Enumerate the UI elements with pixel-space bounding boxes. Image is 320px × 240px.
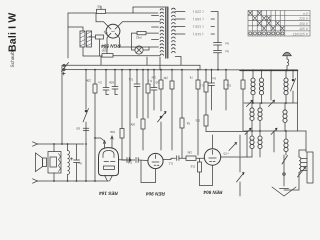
wire mid rail right [244,130,306,132]
label switch plus [62,72,65,75]
wire pickup down [284,172,299,190]
pin V4 cathode wire 1 [107,36,108,54]
pin V2 right [163,158,175,159]
voltage selector table [248,11,310,37]
tap wire 110 [175,33,185,35]
wire power rail link [100,56,102,65]
resistor R5 [94,70,96,84]
svg-text:220 V: 220 V [298,17,309,21]
wire L1 bottom [82,47,84,56]
coil L4 [261,70,263,78]
svg-text:0,5: 0,5 [226,83,231,87]
svg-text:Schaub: Schaub [10,51,16,68]
coil L11 [285,131,287,139]
coil L8 [284,103,286,110]
pin V4 anode wire 2 [118,22,160,27]
svg-text:7k: 7k [189,75,193,79]
switch S2 [85,70,87,109]
wire mains top [68,12,96,14]
mains switch S1 [63,64,65,66]
detector tube V3 REN 904 [204,149,220,165]
pickup coil L12 [299,157,301,172]
grid resistor R13 [199,159,201,163]
junction dots bus [53,69,294,182]
svg-text:0,1: 0,1 [147,79,152,83]
svg-text:0,1: 0,1 [168,161,173,165]
svg-text:RES 164: RES 164 [99,191,118,196]
pin V3 right [221,156,247,158]
svg-text:P42: P42 [136,35,142,39]
antenna A [283,52,292,56]
svg-text:5n: 5n [225,49,229,53]
wire mains left vertical [67,13,69,58]
choke L2 [68,151,70,175]
coil L9 [251,131,253,136]
transformer T1 core [166,8,168,58]
resistor R1 mains dropper [97,9,106,13]
switch contact S6 [245,128,251,134]
wire heater left [146,57,148,65]
svg-text:0,1: 0,1 [127,160,132,164]
capacitor C2 [214,43,222,45]
capacitor C3 [214,50,222,52]
table X marks row1 [249,11,262,15]
title Bali IW [7,12,19,67]
wire T2 bottom [53,173,55,181]
wire drop x95 to bottom rail [94,93,96,181]
wire right bottom rail [244,102,298,104]
pickup tap wires [301,159,308,171]
capacitor C7 [136,70,138,84]
switch contact S5 [269,100,275,106]
wire mains down left [61,65,63,144]
svg-text:( 110 ): ( 110 ) [193,32,204,36]
svg-text:60: 60 [97,4,101,8]
speaker LS cone [36,153,43,172]
pickup trimmer arrow [298,167,306,177]
potentiometer P1 arrow [158,112,167,123]
tap collector wires [211,12,218,41]
wire drop x122 [121,70,123,129]
wire speaker top [38,143,85,145]
pin V1 bottom [105,175,113,181]
resistor R10 [205,70,207,82]
svg-text:+70: +70 [223,151,229,155]
resistor R3 [96,35,104,39]
terminal arrow out2 [33,179,38,183]
table X marks row4 [262,26,284,30]
wire T2 top [53,144,55,152]
svg-text:110/125 V: 110/125 V [293,32,309,36]
svg-text:5n: 5n [212,76,216,80]
table X marks row3 [258,21,280,25]
transformer T1 secondary winding [172,8,176,52]
capacitor C10 [211,70,213,83]
lamp LP1 dial light [135,46,143,54]
pin V3 bottom [200,165,213,185]
wire R1 to transformer [106,12,158,14]
svg-text:4μ: 4μ [78,161,82,165]
wire taps to bus [217,53,219,70]
switch lever ground branch [282,156,288,165]
wire tube3 to coils [246,131,248,157]
ground symbol [272,187,296,196]
coil L6 [251,103,253,108]
resistor R2 [137,31,146,34]
svg-text:5n: 5n [225,41,229,45]
capacitor C6 [114,70,116,87]
wire drop x161 potentiometer [160,70,162,80]
svg-text:n.V: n.V [303,12,309,16]
resistor R17 [171,70,173,81]
wire contact drop x274 [273,132,275,153]
svg-text:0,1: 0,1 [128,77,133,81]
audio tube V2 REN 904 [148,153,163,168]
wire right block vertical [305,131,307,152]
output tube V1 RES 164 [99,148,119,176]
antenna coupling coil L13 [287,59,289,66]
coupling capacitor C12 [122,159,126,161]
transformer T1 primary tap stubs [152,15,159,17]
wire drop x130 [129,70,131,160]
svg-text:REN 904: REN 904 [203,190,222,195]
wire bottom rail power [83,55,102,57]
resistor R15 [242,70,244,80]
wire upper rail [63,65,200,70]
switch contact S7 [271,128,277,134]
pin V3 top [212,135,214,149]
resistor R4 [102,54,113,58]
coil L5 [285,70,287,78]
svg-text:0,1: 0,1 [199,83,204,87]
svg-text:50n: 50n [108,80,114,84]
terminal arrow out1 [33,142,38,146]
tap wire 150 [175,18,185,20]
main bus [63,69,240,71]
pins V1 top [95,138,105,148]
resistor R7 [147,70,149,84]
trimmer V3 top [229,143,237,151]
ground wire [283,155,285,186]
wire L1 top [68,27,83,31]
svg-text:125 V: 125 V [299,27,309,31]
svg-text:2n: 2n [98,80,102,84]
resistor R16 [159,80,163,89]
wire R3 left [89,36,96,38]
wire heater right [159,57,161,70]
resistor R14 [204,115,208,126]
main bus thick [240,69,298,71]
wire top link [133,7,168,9]
pin V4 cathode wire 2 [118,36,159,47]
svg-text:5k: 5k [186,121,190,125]
svg-text:500: 500 [102,45,108,49]
svg-text:50n: 50n [109,130,115,134]
potentiometer P2 arrow [237,173,245,183]
tap wire 125 [175,26,185,28]
svg-text:1M: 1M [187,150,192,154]
resistor R9 [197,70,199,80]
coupling capacitor C13 [136,158,138,163]
resistor R8 [181,70,183,118]
capacitor C11 electrolytic [76,144,78,160]
svg-text:50: 50 [76,126,80,130]
switch contact S4 [247,100,253,106]
grid resistor R12 [186,156,196,160]
svg-text:1M: 1M [151,75,156,79]
rectifier tube V4 RGN 564 [106,24,120,38]
resistor R18 [120,129,124,139]
wire speaker bottom [38,180,109,182]
svg-text:0,5: 0,5 [195,118,200,122]
svg-text:( 220 ): ( 220 ) [193,10,204,14]
svg-text:1k: 1k [104,31,108,35]
coil L3 [252,70,254,78]
pin V2 bottom [141,160,156,182]
choke L1 iron core [80,31,92,47]
svg-text:150 V: 150 V [299,22,309,26]
polarity mark C11 [70,158,73,161]
svg-text:( 125 ): ( 125 ) [193,25,204,29]
coil L10 [259,131,261,136]
svg-text:Bali I W: Bali I W [7,12,19,52]
svg-text:50: 50 [155,80,159,84]
wire h131 link [206,131,247,133]
wire R3 down [99,39,101,56]
wire right bus corner [297,70,299,131]
coil L7 [259,103,261,108]
svg-text:2M: 2M [163,76,168,80]
coupling capacitor C14 [177,156,179,161]
pin V1 side [119,159,130,161]
wire secondary bottom [175,57,181,66]
capacitor C8 [153,70,155,88]
svg-text:50n: 50n [129,122,135,126]
svg-text:REN 904: REN 904 [146,191,165,196]
svg-text:0,5: 0,5 [190,164,195,168]
svg-text:( 150 ): ( 150 ) [193,17,204,21]
resistor R6 [142,70,144,119]
transformer T1 primary winding [160,9,163,24]
pickup terminals block [307,152,313,183]
tap wire 220 [175,11,185,13]
resistor R11 [225,70,227,80]
capacitor C16 [85,144,87,181]
output transformer T2 [48,152,61,174]
table X marks row2 [253,16,270,20]
band switch S3 [292,70,294,78]
table row texts [293,12,309,37]
pin V4 anode wire [96,14,108,27]
table sockets row5 [249,32,284,35]
capacitor C5 [105,70,107,88]
wire contact drop x271 [270,70,272,100]
